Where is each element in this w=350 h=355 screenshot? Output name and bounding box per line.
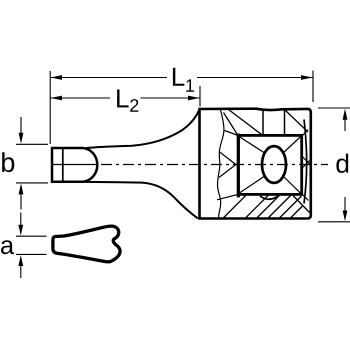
cross-bore exit arc bottom — [260, 196, 278, 199]
wedge profile (blade cross-section) — [53, 226, 120, 262]
square chamfer diagonal BL to ellipse — [240, 176, 266, 193]
dimension b extension lines — [16, 143, 48, 145]
dimension b lower arrow — [20, 191, 22, 210]
chamfer stub TR corner — [302, 130, 309, 137]
label L1 subscript 1 — [186, 79, 194, 91]
arrowhead L2 left — [51, 96, 63, 101]
label a — [1, 240, 14, 254]
socket body outline — [200, 109, 311, 219]
square chamfer diagonal TR to ellipse — [283, 137, 301, 154]
label b — [2, 152, 14, 172]
ball channel left wall — [262, 110, 264, 135]
bore cone line lower-left — [217, 194, 238, 200]
dimension d extension lines — [318, 107, 350, 109]
break (wavy) line — [217, 110, 223, 219]
square chamfer diagonal TL to ellipse — [240, 137, 266, 154]
label d — [336, 154, 348, 173]
dimension a extension lines — [16, 235, 47, 237]
dimension d lower arrow — [344, 197, 346, 214]
extension line right (for L1) — [312, 71, 314, 103]
label L2 subscript 2 — [130, 99, 138, 112]
neck top line and bell — [86, 109, 200, 148]
neck bottom line and bell — [83, 182, 198, 219]
square chamfer diagonal BR to ellipse — [283, 176, 301, 193]
bore cone line upper-left — [225, 131, 239, 136]
right sliver X lower — [302, 161, 310, 169]
label L1 letter L — [173, 68, 184, 86]
dimension a lower arrow — [20, 262, 22, 278]
arrowhead L1 right — [301, 75, 313, 80]
drive square — [238, 135, 301, 194]
extension line left (for L1/L2) — [49, 71, 51, 144]
right sliver X upper — [302, 156, 310, 165]
bore chamfer X left upper — [219, 152, 237, 166]
chamfer stub BR corner — [302, 194, 309, 201]
bore chamfer X left lower — [219, 164, 237, 178]
dimension b upper arrow — [20, 117, 22, 137]
dimension line L1 — [51, 77, 168, 79]
blade vertical line — [62, 148, 64, 182]
label L2 letter L — [117, 90, 128, 108]
arrowhead L1 left — [51, 75, 63, 80]
hatching bottom band — [223, 193, 310, 218]
dimension d upper arrow — [344, 116, 346, 132]
drive entry arc (right) — [304, 120, 307, 204]
dimension line L2 — [51, 97, 111, 99]
centerline (dash-dot axis) — [52, 164, 96, 166]
blade outline — [52, 148, 83, 182]
ball channel right wall — [284, 110, 286, 136]
arrowhead L2 right — [188, 96, 200, 101]
extension line right (for L2) — [199, 86, 201, 107]
blade tip D-curve — [83, 148, 97, 182]
hatching top band — [224, 110, 309, 136]
dimension a upper arrow — [20, 213, 22, 229]
square left edge emphasis — [237, 134, 240, 198]
ball hole ellipse — [262, 146, 286, 183]
